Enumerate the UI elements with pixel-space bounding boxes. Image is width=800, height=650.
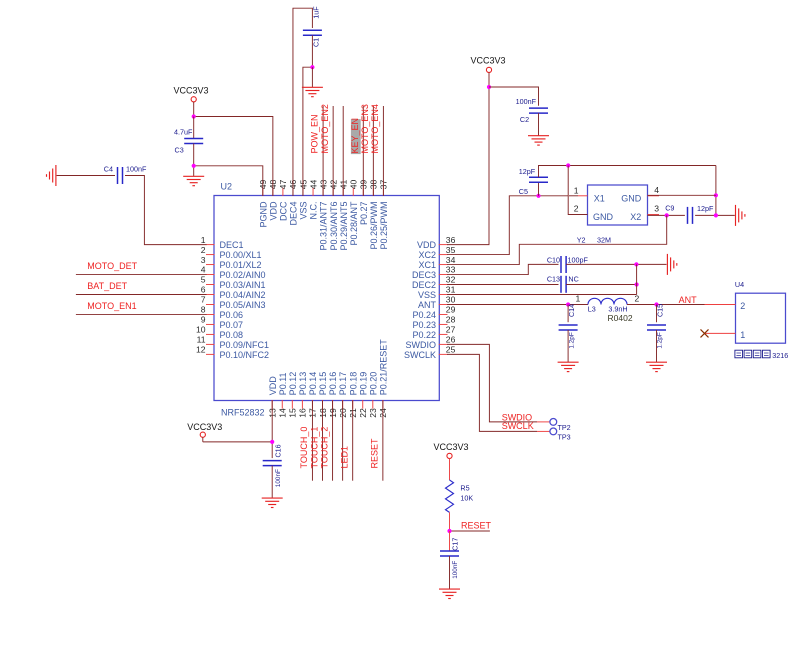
- svg-text:MOTO_EN2: MOTO_EN2: [320, 104, 330, 153]
- wire U2 pin 30 ANT to L3: [447, 303, 588, 305]
- svg-text:14: 14: [278, 408, 288, 418]
- power VCC3V3 top-right: [470, 56, 505, 87]
- svg-text:22: 22: [358, 408, 368, 418]
- node VCC/C2 junction: [487, 85, 491, 89]
- svg-text:1: 1: [576, 294, 581, 304]
- wire C3 bottom / to U2 pin 49 PGND: [193, 144, 195, 177]
- svg-text:1: 1: [740, 330, 745, 340]
- power VCC3V3 above R5: [433, 442, 468, 480]
- svg-text:12: 12: [196, 345, 206, 355]
- svg-text:35: 35: [446, 245, 456, 255]
- svg-text:2: 2: [635, 294, 640, 304]
- wire U2 pin 20 down: [342, 401, 344, 481]
- crystal Y2 body: [588, 185, 648, 225]
- svg-text:12pF: 12pF: [697, 204, 714, 213]
- U2 top pin stubs 37-49: [263, 188, 384, 197]
- svg-text:100nF: 100nF: [516, 97, 537, 106]
- U4 pin 2 stub: [705, 303, 736, 305]
- svg-text:32: 32: [446, 275, 456, 285]
- svg-text:NRF52832: NRF52832: [221, 407, 265, 417]
- svg-text:1: 1: [201, 235, 206, 245]
- wire U2 pin 38 up: [372, 106, 374, 196]
- svg-text:P0.27: P0.27: [359, 202, 369, 226]
- svg-text:P0.16: P0.16: [328, 372, 338, 396]
- U2 left pin stubs 1-12: [206, 245, 215, 355]
- wire U2 pin 18 down: [322, 401, 324, 481]
- svg-text:P0.21/RESET: P0.21/RESET: [378, 339, 388, 396]
- ground left of C4: [47, 165, 56, 186]
- svg-text:28: 28: [446, 315, 456, 325]
- svg-text:TOUCH_2: TOUCH_2: [319, 427, 329, 469]
- no-ERC cross on U4 pin 1: [701, 329, 709, 337]
- svg-text:P0.12: P0.12: [288, 372, 298, 396]
- svg-text:P0.11: P0.11: [278, 372, 288, 395]
- wire VCC3V3 to pin 13 VDD wire: [203, 441, 272, 443]
- ground below C15: [646, 362, 667, 371]
- node VDD/C16 junction: [270, 440, 274, 444]
- svg-text:PGND: PGND: [258, 201, 268, 228]
- resistor R5 10K: [446, 480, 474, 512]
- node C5 junction on X1 wire: [536, 194, 540, 198]
- svg-text:P0.13: P0.13: [298, 372, 308, 396]
- svg-text:P0.22: P0.22: [412, 330, 436, 340]
- svg-text:10K: 10K: [460, 494, 473, 503]
- svg-text:BAT_DET: BAT_DET: [87, 281, 127, 291]
- inductor L3 3.9nH: [576, 294, 640, 324]
- svg-text:26: 26: [446, 335, 456, 345]
- svg-text:C15: C15: [655, 304, 664, 317]
- svg-text:P0.14: P0.14: [308, 372, 318, 396]
- svg-text:2: 2: [201, 245, 206, 255]
- svg-text:P0.31/ANT7: P0.31/ANT7: [319, 202, 329, 251]
- svg-text:8: 8: [201, 305, 206, 315]
- svg-text:R0402: R0402: [608, 313, 633, 323]
- svg-text:P0.23: P0.23: [412, 320, 436, 330]
- svg-text:3216: 3216: [772, 351, 788, 360]
- node VCC/C3 junction: [192, 114, 196, 118]
- net label KEY_EN highlighted: [350, 118, 361, 154]
- svg-text:12pF: 12pF: [519, 167, 536, 176]
- svg-text:29: 29: [446, 305, 456, 315]
- svg-text:C9: C9: [665, 203, 674, 212]
- svg-text:100nF: 100nF: [126, 165, 147, 174]
- Y2 pin 1 stub: [569, 195, 578, 197]
- svg-text:9: 9: [201, 315, 206, 325]
- svg-text:P0.02/AIN0: P0.02/AIN0: [220, 270, 266, 280]
- svg-text:C2: C2: [520, 115, 529, 124]
- svg-text:GND: GND: [593, 212, 614, 222]
- capacitor C4 100nF: [104, 165, 147, 185]
- svg-text:100pF: 100pF: [568, 255, 589, 264]
- U2 bottom pin stubs 13-24: [272, 400, 383, 409]
- wire U2 pin 32 DEC2 to C13: [447, 284, 559, 286]
- node C1/VSS/GND junction: [310, 65, 314, 69]
- power VCC3V3 bottom-left: [187, 422, 222, 442]
- wire MOTO_DET to pin 4: [76, 274, 207, 276]
- svg-text:P0.07: P0.07: [220, 320, 244, 330]
- node C3 bottom junction: [192, 164, 196, 168]
- svg-text:P0.00/XL1: P0.00/XL1: [220, 250, 262, 260]
- svg-text:NC: NC: [568, 275, 578, 284]
- svg-text:C10: C10: [547, 255, 560, 264]
- svg-text:VDD: VDD: [417, 240, 437, 250]
- wire junction to C2: [489, 87, 539, 106]
- wire vertical C10-C13-VSS: [636, 264, 638, 294]
- capacitor C14 1.2pF: [559, 304, 578, 362]
- wire C13 right to vertical: [566, 284, 637, 286]
- U2 pin numbers left 1-12: [196, 235, 206, 355]
- power VCC3V3 top-left: [173, 86, 208, 117]
- Y2 pin 2 stub: [578, 214, 588, 216]
- svg-text:4: 4: [654, 185, 659, 195]
- capacitor C1 1uF: [303, 6, 322, 47]
- svg-text:VCC3V3: VCC3V3: [470, 56, 505, 66]
- node X2/C9 junction: [665, 213, 669, 217]
- svg-text:P0.29/ANT5: P0.29/ANT5: [339, 202, 349, 251]
- svg-text:27: 27: [446, 325, 456, 335]
- svg-text:X1: X1: [594, 193, 605, 203]
- ground below C1: [302, 87, 323, 96]
- U2 pin names left: [220, 240, 270, 360]
- svg-text:SWCLK: SWCLK: [502, 421, 534, 431]
- svg-text:TOUCH_1: TOUCH_1: [309, 427, 319, 469]
- wire U2 pin 25 SWCLK to TP3: [447, 354, 537, 431]
- svg-text:100nF: 100nF: [452, 561, 459, 579]
- svg-text:10: 10: [196, 325, 206, 335]
- svg-text:P0.09/NFC1: P0.09/NFC1: [220, 340, 270, 350]
- svg-text:TP3: TP3: [558, 433, 571, 442]
- wire GND rail down to Y2 pin 2: [568, 166, 587, 215]
- U2 right pin stubs 25-36: [439, 245, 448, 355]
- svg-text:LED1: LED1: [339, 446, 349, 469]
- svg-text:P0.28/ANT: P0.28/ANT: [349, 201, 359, 246]
- svg-text:15: 15: [288, 408, 298, 418]
- MCU U2 body (NRF52832): [214, 196, 439, 401]
- wire C5 top / GND rail: [539, 166, 716, 178]
- U4 label ceramic antenna 3216: [735, 350, 788, 360]
- wire Y2 pin 3 X2 to C9: [648, 214, 685, 216]
- svg-text:L3: L3: [588, 305, 596, 314]
- svg-text:DEC4: DEC4: [289, 202, 299, 226]
- U2 pin numbers top 37-49: [258, 180, 389, 190]
- svg-text:3: 3: [654, 204, 659, 214]
- svg-text:P0.24: P0.24: [412, 310, 436, 320]
- wire U2 pin 31 VSS right: [447, 294, 637, 296]
- svg-text:C17: C17: [450, 538, 459, 551]
- wire C3 top: [193, 117, 195, 139]
- svg-text:C13: C13: [547, 275, 560, 284]
- wire U2 pin 41 up: [342, 106, 344, 196]
- svg-text:P0.19: P0.19: [358, 372, 368, 396]
- svg-text:U2: U2: [221, 182, 233, 192]
- wire Y2 pin 4 to vertical: [648, 194, 716, 196]
- svg-text:DEC2: DEC2: [412, 280, 436, 290]
- wire U2 pin 43 up: [322, 106, 324, 196]
- node C13/vertical junction: [635, 282, 639, 286]
- ground below C17: [439, 589, 460, 598]
- wire VCC3V3 down to U2 pin 36 VDD: [447, 87, 489, 245]
- node C15 junction: [654, 302, 658, 306]
- svg-text:3: 3: [201, 255, 206, 265]
- wire R5 to junction: [449, 512, 451, 531]
- svg-text:4.7uF: 4.7uF: [174, 127, 193, 136]
- capacitor C9 12pF: [665, 203, 714, 224]
- svg-text:VDD: VDD: [268, 376, 278, 396]
- svg-text:1.2pF: 1.2pF: [568, 332, 575, 348]
- svg-text:1.2pF: 1.2pF: [657, 332, 664, 348]
- svg-text:2: 2: [740, 301, 745, 311]
- svg-text:VCC3V3: VCC3V3: [173, 86, 208, 96]
- wire U2 pin 35 XC2 to Y2 pin 1 X1: [447, 196, 569, 255]
- wire junction to U2 pin 45 VSS: [303, 67, 313, 196]
- capacitor C2 100nF: [516, 97, 548, 124]
- svg-text:P0.15: P0.15: [318, 372, 328, 396]
- svg-text:16: 16: [298, 408, 308, 418]
- svg-text:KEY_EN: KEY_EN: [350, 118, 360, 154]
- U4 pin 1 stub: [705, 332, 736, 334]
- ground below C2: [528, 136, 549, 145]
- node C9/GND junction: [714, 213, 718, 217]
- svg-text:P0.05/AIN3: P0.05/AIN3: [220, 300, 266, 310]
- ground right of C10: [667, 254, 676, 275]
- svg-text:5: 5: [201, 275, 206, 285]
- svg-text:34: 34: [446, 255, 456, 265]
- node R5/C17/RESET junction: [447, 529, 451, 533]
- svg-text:DEC3: DEC3: [412, 270, 436, 280]
- U2 pin names bottom: [268, 339, 389, 396]
- svg-text:23: 23: [368, 408, 378, 418]
- svg-text:44: 44: [308, 180, 318, 190]
- wire ground to C4: [57, 175, 115, 177]
- wire L3 to C15/U4: [627, 303, 705, 305]
- svg-text:P0.17: P0.17: [338, 372, 348, 396]
- svg-text:MOTO_EN1: MOTO_EN1: [87, 301, 136, 311]
- svg-text:RESET: RESET: [461, 521, 492, 531]
- wire U2 pin 42 up: [332, 106, 334, 196]
- capacitor C15 1.2pF: [647, 304, 666, 362]
- svg-text:RESET: RESET: [370, 438, 380, 469]
- svg-text:7: 7: [201, 295, 206, 305]
- svg-text:1uF: 1uF: [311, 6, 320, 19]
- svg-text:XC2: XC2: [418, 250, 436, 260]
- svg-text:X2: X2: [630, 212, 641, 222]
- svg-text:N.C.: N.C.: [309, 202, 319, 220]
- U2 pin names right: [404, 240, 437, 360]
- wire VCC3V3 to U2 pin 48 VDD: [194, 117, 273, 197]
- wire U2 pin 39 up: [362, 106, 364, 196]
- svg-text:VCC3V3: VCC3V3: [433, 442, 468, 452]
- svg-text:30: 30: [446, 295, 456, 305]
- svg-text:ANT: ANT: [418, 300, 437, 310]
- wire U2 pin 37 up: [382, 106, 384, 196]
- wire MOTO_EN1 to pin 8: [76, 313, 207, 315]
- capacitor C10 100pF: [547, 255, 589, 273]
- test point TP3: [550, 428, 571, 442]
- capacitor C16 100nF: [263, 444, 283, 498]
- wire BAT_DET to pin 6: [76, 294, 207, 296]
- svg-text:DCC: DCC: [279, 201, 289, 221]
- svg-text:VSS: VSS: [299, 202, 309, 220]
- svg-text:C4: C4: [104, 165, 113, 174]
- wire C4 to U2 pin 1 DEC1: [125, 176, 207, 245]
- svg-text:P0.01/XL2: P0.01/XL2: [220, 260, 262, 270]
- svg-text:36: 36: [446, 235, 456, 245]
- svg-text:SWCLK: SWCLK: [404, 350, 436, 360]
- svg-text:P0.18: P0.18: [348, 372, 358, 396]
- svg-text:TOUCH_0: TOUCH_0: [299, 427, 309, 469]
- svg-text:P0.26/PWM: P0.26/PWM: [369, 202, 379, 250]
- wire junction to ground: [311, 67, 313, 87]
- svg-text:C14: C14: [567, 304, 576, 317]
- svg-text:VDD: VDD: [268, 201, 278, 221]
- wire C10 right to ground: [566, 263, 666, 265]
- svg-text:MOTO_EN4: MOTO_EN4: [370, 104, 380, 153]
- svg-text:POW_EN: POW_EN: [310, 114, 320, 153]
- svg-text:VSS: VSS: [418, 290, 436, 300]
- svg-text:40: 40: [349, 180, 359, 190]
- svg-text:MOTO_DET: MOTO_DET: [87, 261, 137, 271]
- svg-text:P0.04/AIN2: P0.04/AIN2: [220, 290, 266, 300]
- ground below C16: [262, 498, 283, 507]
- wire U2 pin 21 down: [352, 401, 354, 481]
- svg-text:SWDIO: SWDIO: [406, 340, 437, 350]
- svg-text:6: 6: [201, 285, 206, 295]
- svg-text:1: 1: [574, 186, 579, 196]
- capacitor C5 12pF: [519, 167, 548, 196]
- ground below C14: [558, 362, 579, 371]
- wire U2 pin 19 down: [332, 401, 334, 481]
- svg-text:XC1: XC1: [418, 260, 436, 270]
- svg-text:P0.30/ANT6: P0.30/ANT6: [329, 202, 339, 251]
- node GND rail to Y2 pin2: [566, 163, 570, 167]
- svg-text:VCC3V3: VCC3V3: [187, 422, 222, 432]
- svg-text:C3: C3: [175, 146, 184, 155]
- svg-text:U4: U4: [735, 280, 744, 289]
- wire C9 right to ground: [695, 214, 735, 216]
- wire U2 pin 33 DEC3 to C10: [447, 264, 559, 274]
- wire C5 up: [538, 182, 540, 196]
- svg-text:ANT: ANT: [679, 295, 698, 305]
- wire U2 pin 46 DEC4 up to C1: [293, 8, 312, 196]
- wire C1 bottom to junction: [311, 35, 313, 67]
- U2 pin numbers bottom 13-24: [268, 408, 389, 418]
- svg-text:C5: C5: [519, 187, 528, 196]
- Y2 pin 3 stub: [648, 214, 660, 216]
- svg-text:P0.25/PWM: P0.25/PWM: [379, 202, 389, 250]
- svg-text:GND: GND: [621, 193, 642, 203]
- svg-text:TP2: TP2: [558, 423, 571, 432]
- svg-text:P0.08: P0.08: [220, 330, 244, 340]
- svg-text:P0.03/AIN1: P0.03/AIN1: [220, 280, 266, 290]
- U2 pin names top: [258, 201, 389, 251]
- svg-text:P0.06: P0.06: [220, 310, 244, 320]
- ground below C3: [183, 176, 204, 185]
- capacitor C3 4.7uF: [174, 127, 203, 154]
- node C10/ground junction: [634, 262, 638, 266]
- test point TP2: [550, 419, 571, 433]
- svg-text:2: 2: [574, 204, 579, 214]
- wire GND rail right down to Y2 pin 4: [715, 166, 717, 216]
- svg-text:DEC1: DEC1: [220, 240, 244, 250]
- svg-text:33: 33: [446, 265, 456, 275]
- wire U2 pin 24 down: [382, 401, 384, 481]
- svg-text:4: 4: [201, 265, 206, 275]
- ground right of C9: [736, 205, 745, 226]
- antenna U4 body: [736, 293, 786, 343]
- svg-text:P0.20: P0.20: [368, 372, 378, 396]
- U2 pin numbers right 25-36: [446, 235, 456, 355]
- wire U2 pin 17 down: [311, 401, 313, 481]
- wire C2 to ground: [538, 113, 540, 136]
- svg-text:R5: R5: [460, 483, 469, 492]
- svg-text:31: 31: [446, 285, 456, 295]
- wire U2 pin 13 down through junction to C16: [271, 401, 273, 459]
- svg-text:100nF: 100nF: [275, 469, 282, 487]
- svg-text:P0.10/NFC2: P0.10/NFC2: [220, 350, 270, 360]
- node pin4 wire junction: [714, 193, 718, 197]
- svg-text:25: 25: [446, 345, 456, 355]
- wire U2 pin 26 SWDIO to TP2: [447, 344, 537, 422]
- wire RESET stub right: [450, 530, 490, 532]
- Y2 pin 4 stub: [648, 195, 660, 197]
- capacitor C17 100nF: [440, 531, 459, 589]
- svg-text:32M: 32M: [597, 236, 611, 245]
- svg-text:11: 11: [197, 335, 206, 345]
- svg-text:C16: C16: [273, 444, 282, 457]
- svg-text:Y2: Y2: [577, 236, 586, 245]
- wire X2 down to U2 pin 34 XC1: [447, 215, 667, 264]
- node C14 junction: [566, 302, 570, 306]
- capacitor C13 NC: [547, 275, 579, 293]
- svg-text:47: 47: [278, 180, 288, 190]
- svg-text:MOTO_EN3: MOTO_EN3: [360, 104, 370, 153]
